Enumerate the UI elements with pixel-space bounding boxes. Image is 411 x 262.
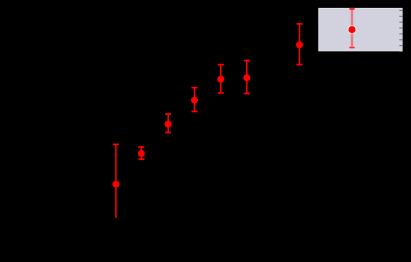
data point 8 marker halo — [347, 25, 356, 34]
data point 5 error bar — [218, 65, 224, 93]
data point 3 marker — [165, 121, 172, 128]
data point 6 marker — [243, 74, 250, 81]
legend box inner light border — [319, 8, 402, 50]
data point 5 marker — [217, 76, 224, 83]
data point 4 error bar — [192, 88, 198, 112]
data point 3 error bar — [165, 114, 171, 132]
data point 2 marker — [138, 150, 145, 157]
data point 6 error bar — [244, 61, 250, 94]
data point 8 error bar caps — [349, 8, 354, 10]
data point 7 error bar — [297, 24, 303, 65]
data point 8 error bar line (seen through legend box) — [351, 9, 353, 48]
data point 4 marker — [191, 97, 198, 104]
data point 1 error bar — [113, 144, 119, 218]
right axis minor ticks (visible over legend box) — [399, 10, 402, 51]
data point 8 marker (drawn over legend box) — [349, 26, 356, 33]
data point 8 bottom cap halo — [349, 46, 356, 49]
data point 7 marker — [296, 41, 303, 48]
data point 2 error bar — [138, 147, 144, 159]
legend box (translucent lavender) — [318, 8, 402, 51]
data point 1 marker — [112, 181, 119, 188]
